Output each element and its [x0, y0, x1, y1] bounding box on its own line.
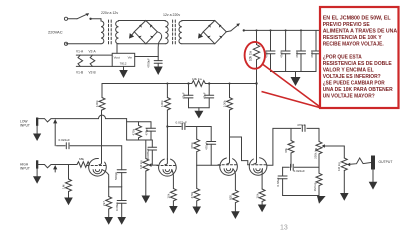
- resistor 10k (V1b cathode): [167, 170, 177, 206]
- svg-text:¿POR QUE ESTA: ¿POR QUE ESTA: [323, 55, 362, 61]
- svg-text:INPUT: INPUT: [20, 167, 30, 171]
- svg-text:100k: 100k: [95, 100, 99, 107]
- ground at output jack: [369, 170, 378, 190]
- node B+ rail junction: [255, 82, 257, 84]
- potentiometer 1M log (volume V1): [139, 140, 158, 196]
- ground at LOW jack: [33, 126, 41, 141]
- ground at master pot: [340, 193, 349, 201]
- ground cap bank: [291, 72, 301, 87]
- wire V1a plate lead: [101, 110, 103, 160]
- capacitor 47uF (rail right): [203, 84, 214, 108]
- wire V1b plate lead: [166, 110, 168, 160]
- svg-text:EN EL JCM800 DE 50W, EL: EN EL JCM800 DE 50W, EL: [323, 16, 392, 22]
- wire to output jack: [350, 158, 371, 164]
- tube V1b (triode): [157, 159, 176, 177]
- ground at V2b cathode: [258, 205, 267, 213]
- wire T1 secondary to 7812: [116, 44, 118, 54]
- transformer T2 core: [172, 20, 174, 44]
- red ellipse around 10k 1w: [245, 42, 265, 69]
- wire cathode junction: [109, 186, 122, 188]
- svg-text:¿SE PUEDE CAMBIAR POR: ¿SE PUEDE CAMBIAR POR: [323, 81, 385, 87]
- svg-text:RESISTENCIA ES DE DOBLE: RESISTENCIA ES DE DOBLE: [323, 61, 392, 67]
- wire HT top: [182, 20, 215, 22]
- ground at 7812: [119, 66, 128, 78]
- capacitor 47uF (1): [265, 30, 276, 71]
- svg-text:10k: 10k: [255, 193, 259, 198]
- svg-text:68k: 68k: [79, 157, 84, 161]
- svg-text:0.022uF: 0.022uF: [294, 169, 305, 173]
- capacitor 4700uF: [147, 57, 163, 69]
- svg-text:47uF: 47uF: [295, 51, 299, 58]
- wire 12V rail bottom: [119, 43, 166, 45]
- wire tone bottom rail: [283, 195, 319, 197]
- svg-text:470pF: 470pF: [145, 127, 149, 135]
- svg-text:1M log: 1M log: [337, 162, 341, 171]
- jack OUTPUT: [371, 156, 375, 170]
- svg-text:220v a 12v: 220v a 12v: [101, 11, 118, 15]
- svg-text:VOLTAJE ES INFERIOR?: VOLTAJE ES INFERIOR?: [323, 74, 382, 80]
- svg-text:Vin: Vin: [128, 55, 133, 59]
- svg-text:100k: 100k: [222, 100, 226, 107]
- capacitor 47uF (4): [310, 30, 321, 71]
- ground at 2k7: [104, 217, 113, 225]
- svg-text:47uF: 47uF: [280, 51, 284, 58]
- svg-text:10k 1w: 10k 1w: [192, 77, 203, 81]
- heater element V1: [78, 55, 83, 66]
- svg-text:220VAC: 220VAC: [48, 30, 63, 35]
- svg-text:470k: 470k: [190, 191, 194, 198]
- svg-text:47uF: 47uF: [203, 92, 207, 99]
- jack HIGH INPUT: [36, 160, 57, 172]
- wire BR1 output to Vin: [157, 32, 161, 57]
- svg-text:470pF: 470pF: [205, 142, 209, 150]
- capacitor 0.022uF (interstage): [167, 120, 211, 129]
- bridge rectifier BR1: [134, 21, 157, 44]
- capacitor 0.68uF (V1 cathode): [115, 187, 126, 217]
- wire slope bottom: [127, 139, 153, 141]
- svg-text:33k: 33k: [284, 148, 288, 153]
- wire from 10k 1w down to V2b plate: [256, 60, 258, 158]
- svg-text:VALOR Y ENCIMA EL: VALOR Y ENCIMA EL: [323, 68, 375, 74]
- svg-text:47uF: 47uF: [182, 92, 186, 99]
- ground at 4700uF: [154, 63, 163, 75]
- wire cap bank bottom: [271, 71, 317, 73]
- transformer T1 primary coil: [101, 19, 104, 44]
- wire V2a plate to V2b grid: [230, 137, 248, 164]
- resistor 470k (slope network): [127, 119, 151, 140]
- transformer T1 secondary coil: [116, 21, 119, 44]
- ground at 820: [231, 211, 240, 219]
- resistor 100k (V1b plate): [160, 84, 170, 111]
- switch S2 (standby): [226, 23, 245, 31]
- capacitor 500pF (low input chain): [114, 146, 126, 187]
- capacitor 0.022uF (mid): [291, 164, 320, 173]
- node rail taps: [166, 83, 230, 85]
- transformer T2 primary coil: [165, 21, 168, 44]
- svg-text:RECIBE MAYOR VOLTAJE.: RECIBE MAYOR VOLTAJE.: [323, 42, 384, 48]
- ground at 0.68uF: [117, 217, 126, 225]
- resistor 68k: [77, 157, 90, 168]
- transformer T2 secondary coil: [179, 21, 182, 44]
- tube V1 (triode): [87, 158, 106, 176]
- resistor 470k (V2a grid upper): [190, 127, 200, 166]
- wire V2a plate lead: [229, 110, 231, 159]
- resistor 33k (slope): [284, 128, 294, 167]
- svg-text:470k: 470k: [190, 142, 194, 149]
- resistor 10k 1w (series, on rail): [192, 77, 206, 87]
- svg-text:10k 1w: 10k 1w: [249, 50, 253, 61]
- potentiometer 250k log (treble): [314, 128, 345, 173]
- capacitor 47uF (rail left): [182, 84, 194, 108]
- resistor 10k 1w (circled): [249, 30, 260, 61]
- svg-text:UN VOLTAJE MAYOR?: UN VOLTAJE MAYOR?: [323, 94, 376, 100]
- tube V2a (triode): [218, 158, 237, 176]
- wire mid network: [283, 166, 290, 168]
- wire V1 cathode: [102, 170, 109, 187]
- svg-text:PREVIO PREVIO SE: PREVIO PREVIO SE: [323, 22, 370, 28]
- svg-text:UNA DE 10K PARA OBTENER: UNA DE 10K PARA OBTENER: [323, 87, 393, 93]
- capacitor 470pF (treble): [297, 123, 307, 131]
- svg-text:RESISTENCIA DE 10K Y: RESISTENCIA DE 10K Y: [323, 35, 382, 41]
- red callout line lower: [262, 92, 320, 108]
- red callout line upper: [263, 65, 320, 107]
- switch S1: [68, 13, 92, 20]
- ground at BR2: [196, 30, 206, 40]
- wire low input top: [55, 115, 126, 118]
- wire: [91, 18, 101, 20]
- transformer T1 core: [108, 20, 110, 44]
- svg-text:V2-A: V2-A: [89, 50, 97, 54]
- svg-text:OUTPUT: OUTPUT: [379, 160, 393, 164]
- wire B+ bus: [244, 29, 319, 31]
- tube V2b (cathode follower): [248, 158, 267, 176]
- ground at HIGH jack: [33, 169, 41, 184]
- svg-text:250k log: 250k log: [314, 147, 318, 158]
- resistor 2k7 (V1 cathode): [102, 187, 112, 217]
- svg-text:500pF: 500pF: [114, 172, 118, 180]
- jack LOW INPUT: [36, 118, 57, 146]
- wire high input: [55, 164, 77, 166]
- capacitor 470pF (slope network): [145, 122, 156, 140]
- capacitor 47uF (3): [295, 30, 306, 71]
- resistor 100k (V2a plate): [222, 84, 232, 111]
- capacitor 0.005uF (bright): [146, 140, 157, 165]
- svg-text:1M log: 1M log: [313, 182, 317, 191]
- svg-text:4700uF: 4700uF: [147, 58, 151, 68]
- svg-text:820: 820: [229, 195, 233, 200]
- svg-text:100k: 100k: [160, 100, 164, 107]
- node bus taps: [256, 29, 303, 31]
- svg-text:13: 13: [280, 225, 288, 232]
- wire to V2a grid: [197, 164, 221, 166]
- svg-text:1M: 1M: [62, 184, 66, 189]
- wire CF output riser: [267, 128, 319, 165]
- wire 12V rail top: [119, 20, 166, 22]
- svg-text:2k7: 2k7: [102, 201, 106, 206]
- ground at V1b cathode: [169, 206, 178, 214]
- red annotation overlay: [245, 7, 399, 108]
- capacitor 0.022uF (low input): [57, 138, 122, 149]
- svg-text:INPUT: INPUT: [20, 124, 30, 128]
- node rail left cap: [187, 82, 189, 84]
- potentiometer 1M log (master volume): [337, 146, 350, 193]
- resistor 1M (high input): [62, 165, 72, 198]
- svg-text:0.68uF: 0.68uF: [115, 202, 119, 211]
- svg-text:10k: 10k: [167, 193, 171, 198]
- svg-text:0.005uF: 0.005uF: [146, 148, 150, 159]
- svg-text:1M log: 1M log: [139, 160, 143, 169]
- regulator U1 7812: [112, 53, 135, 66]
- wire Vin: [135, 56, 159, 58]
- node V1b plate coupling tap: [166, 125, 168, 127]
- ground rail caps: [194, 108, 203, 119]
- resistor 470k (V2a grid leak): [190, 165, 200, 206]
- capacitor 47uF (2): [280, 30, 291, 71]
- heater element V2: [90, 55, 95, 66]
- 220VAC input terminals: [64, 17, 67, 45]
- svg-text:12v a 220v: 12v a 220v: [163, 13, 180, 17]
- wire: [66, 43, 101, 45]
- ground at 1M: [64, 198, 73, 206]
- annotation text: [323, 16, 398, 100]
- svg-text:47uF: 47uF: [310, 51, 314, 58]
- ground at bass pot: [317, 196, 326, 204]
- svg-text:ALIMENTA A TRAVES DE UNA: ALIMENTA A TRAVES DE UNA: [323, 29, 398, 35]
- svg-text:V1-B: V1-B: [76, 71, 83, 75]
- capacitor 470pF (V2a grid): [205, 127, 216, 166]
- svg-text:Vout: Vout: [114, 55, 120, 59]
- ground at BR1: [127, 30, 137, 40]
- svg-text:0.68uF: 0.68uF: [276, 177, 280, 186]
- wire caps bottom U: [189, 107, 210, 109]
- svg-text:0.022uF: 0.022uF: [59, 138, 70, 142]
- capacitor 0.68uF (bass): [276, 167, 287, 195]
- wire heater bottom: [76, 65, 112, 67]
- ground at grid leak: [192, 207, 201, 215]
- potentiometer 1M log (bass): [313, 173, 322, 196]
- node rail right cap: [208, 82, 210, 84]
- svg-text:7812: 7812: [120, 62, 127, 66]
- resistor 10k (V2b cathode): [255, 169, 265, 205]
- svg-text:V2-B: V2-B: [89, 71, 96, 75]
- wire heater top: [76, 54, 112, 56]
- wire HT rail: [102, 83, 257, 85]
- bridge rectifier BR2: [203, 21, 226, 44]
- resistor 100k (V1a plate): [95, 84, 105, 111]
- svg-text:V1-A: V1-A: [76, 50, 84, 54]
- resistor 820 (V2a cathode): [229, 169, 239, 211]
- red callout box: [320, 7, 399, 108]
- wire HT bottom: [182, 43, 215, 45]
- svg-text:470k: 470k: [132, 128, 136, 135]
- ground at volume pot: [142, 196, 151, 204]
